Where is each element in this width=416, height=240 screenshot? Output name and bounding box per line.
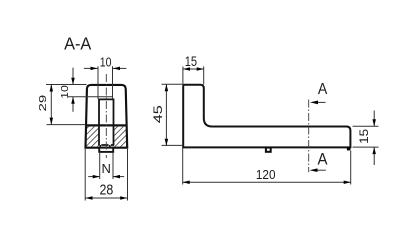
top 15 dim line: [183, 68, 204, 70]
dim 29 arrow down: [50, 118, 54, 125]
dimension 29 line: [50, 85, 52, 125]
right 15 arrow up: [372, 147, 376, 154]
svg-text:15: 15: [359, 129, 371, 144]
N dim ext lines down: [99, 152, 101, 179]
bottom foot: [99, 148, 113, 152]
small foot mid: [266, 148, 271, 152]
right 15 dim ext lines: [353, 125, 379, 127]
top dim 10 line left + arrow: [84, 67, 98, 69]
svg-text:10: 10: [100, 54, 112, 69]
centerline: [105, 74, 107, 158]
section arrow bottom: [310, 168, 318, 172]
top dim 10: ext lines up from slot: [97, 66, 99, 99]
28 dim line: [86, 197, 128, 199]
120 dim line: [183, 181, 351, 183]
dim 10v arrow up: [71, 97, 75, 104]
neck verticals: [100, 145, 110, 148]
right 15 arrow down: [372, 119, 376, 126]
svg-text:A: A: [318, 150, 329, 169]
45 arrow down: [165, 139, 169, 146]
top 15 arrow right: [197, 67, 204, 71]
N dim line right + arrow: [113, 176, 124, 178]
hatch top edge line: [86, 124, 127, 126]
45 dim ext top: [162, 83, 184, 85]
120 arrow right: [344, 181, 351, 185]
section line A-A: [308, 100, 310, 173]
120 arrow left: [183, 181, 190, 185]
svg-text:45: 45: [153, 105, 165, 123]
svg-text:120: 120: [256, 167, 276, 182]
svg-text:10: 10: [60, 85, 71, 99]
svg-text:A-A: A-A: [64, 34, 91, 54]
dimension 10 (vertical) line top tail: [72, 68, 74, 85]
ext line y=96.7: [68, 96, 113, 98]
hatch left region: [86, 127, 99, 147]
top dim 10 line right + arrow: [113, 67, 126, 69]
N dim line left + arrow: [88, 176, 100, 178]
slot bottom line segments: [98, 144, 114, 146]
top 15 dim ext lines: [182, 67, 184, 85]
hatch right region: [114, 127, 127, 147]
45 dim ext bottom: [162, 144, 184, 146]
120 dim ext lines: [182, 148, 184, 185]
svg-text:28: 28: [100, 182, 114, 199]
L profile outline: [183, 85, 350, 148]
svg-text:29: 29: [38, 94, 49, 111]
ext line y=124.6: [47, 124, 86, 126]
28 arrow left: [86, 196, 93, 200]
dim 10v line bottom tail: [72, 97, 74, 112]
small foot right end: [347, 147, 351, 151]
28 arrow right: [120, 196, 127, 200]
top 15 arrow left: [183, 67, 190, 71]
45 arrow up: [165, 84, 169, 91]
28 dim ext lines down: [84, 149, 86, 201]
svg-text:A: A: [318, 81, 328, 98]
right 15 dim line bottom tail: [373, 147, 375, 165]
ext line top (y=84.5 left): [46, 84, 87, 86]
svg-text:15: 15: [185, 54, 197, 69]
clamp body outline: [86, 85, 128, 148]
section arrow top: [310, 101, 318, 105]
45 dim line: [165, 84, 167, 146]
inner slot: [99, 99, 114, 145]
right 15 dim line top tail: [373, 111, 375, 127]
dim 10v arrow down: [71, 78, 75, 85]
svg-text:N: N: [102, 161, 111, 176]
dim 29 arrow up: [50, 85, 54, 92]
